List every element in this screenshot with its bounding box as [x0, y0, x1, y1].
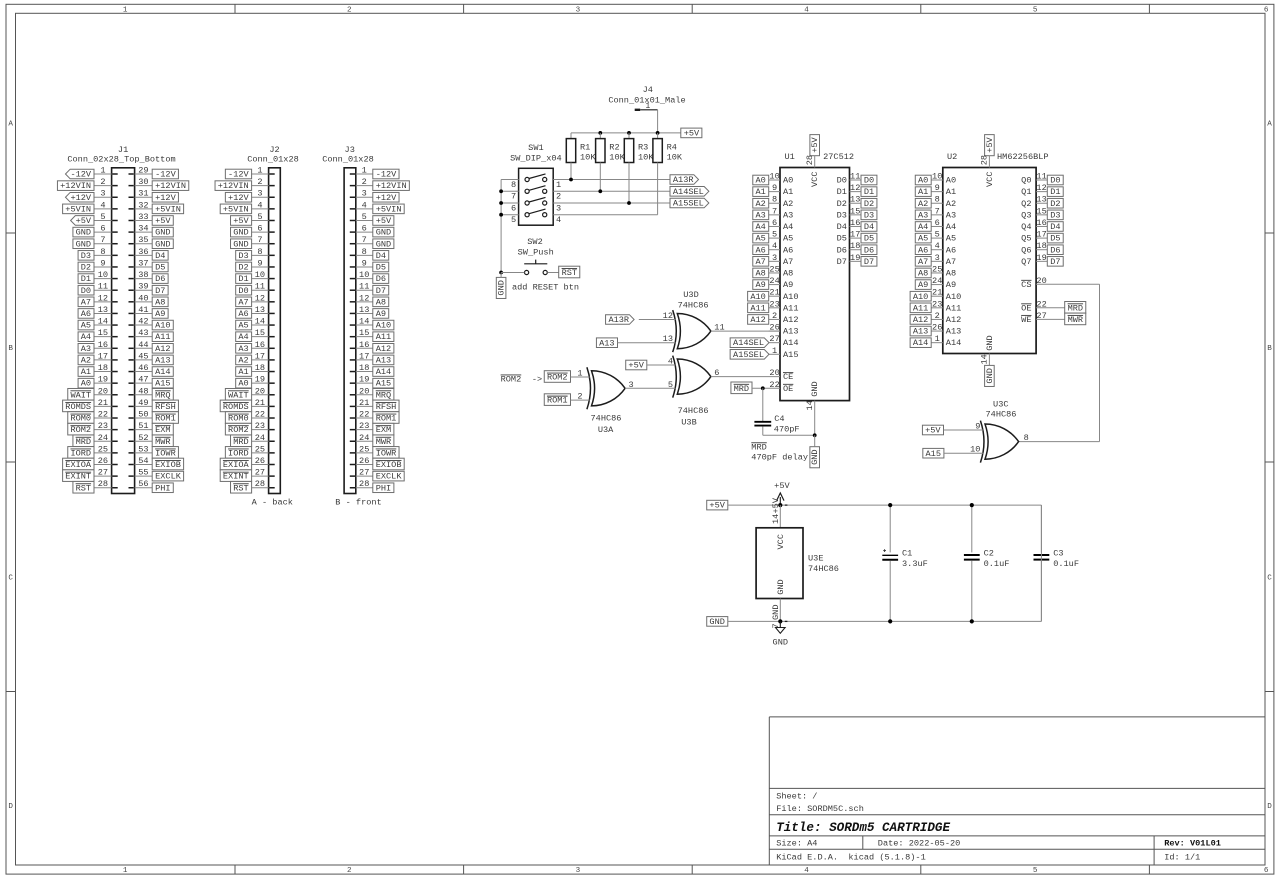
svg-text:A6: A6 [918, 245, 928, 255]
resistor R4 10K [653, 133, 683, 215]
label +5V (power rail) [707, 500, 728, 510]
svg-text:D3: D3 [1050, 210, 1060, 220]
svg-text:Q3: Q3 [1021, 210, 1031, 220]
svg-text:12: 12 [98, 293, 108, 303]
J2 pin 18 (A1) [236, 363, 275, 377]
J3 pin 16 (A12) [350, 340, 394, 354]
J1 pin 32 (+5VIN) [129, 200, 184, 214]
J1 pin 41 (A9) [129, 305, 169, 319]
junction C1 bottom [888, 619, 892, 623]
svg-text:MRQ: MRQ [376, 390, 391, 400]
svg-text:MRD: MRD [76, 437, 91, 447]
svg-text:A3: A3 [918, 210, 928, 220]
U2 pin 4 (A6) [915, 241, 956, 255]
XOR gate U3A 74HC86 [577, 367, 633, 435]
J2 pin 10 (D1) [236, 270, 275, 284]
svg-text:47: 47 [138, 375, 148, 385]
svg-text:+12VIN: +12VIN [376, 181, 407, 191]
J1 pin 51 (EXM) [129, 421, 174, 435]
svg-text:C3: C3 [1053, 548, 1063, 558]
svg-text:GND: GND [985, 335, 995, 350]
svg-text:U3E: U3E [808, 553, 823, 563]
svg-text:D2: D2 [864, 199, 874, 209]
label A15 at U3C [923, 448, 944, 458]
J1 pin 17 (A2) [78, 351, 118, 365]
svg-text:A12: A12 [376, 344, 391, 354]
svg-text:A13: A13 [376, 355, 391, 365]
svg-text:20: 20 [255, 386, 265, 396]
svg-text:+5V: +5V [709, 501, 725, 511]
svg-text:+5V: +5V [810, 136, 820, 152]
svg-text:A1: A1 [946, 187, 956, 197]
svg-text:EXCLK: EXCLK [376, 472, 403, 482]
label MRD at U1 OE [731, 382, 752, 394]
svg-text:A10: A10 [913, 292, 928, 302]
J2 pin 27 (EXINT) [220, 468, 275, 482]
J2 pin 13 (A6) [236, 305, 275, 319]
J2 pin 14 (A5) [236, 317, 275, 331]
svg-text:D4: D4 [837, 222, 847, 232]
svg-text:6: 6 [1264, 6, 1269, 14]
J2 pin 8 (D3) [236, 247, 275, 261]
svg-text:8: 8 [100, 247, 105, 257]
svg-text:A3: A3 [946, 210, 956, 220]
svg-text:13: 13 [98, 305, 108, 315]
svg-text:-12V: -12V [70, 170, 91, 180]
J2 pin 17 (A2) [236, 351, 275, 365]
svg-text:4: 4 [804, 6, 809, 14]
svg-text:ROM2: ROM2 [501, 375, 522, 385]
wire GND bottom rail [728, 620, 1042, 622]
svg-text:13: 13 [850, 195, 860, 205]
svg-text:GND: GND [76, 239, 91, 249]
svg-text:A12: A12 [946, 315, 961, 325]
label A13R (switch) [670, 175, 699, 185]
svg-text:D0: D0 [81, 286, 91, 296]
J2 pin 11 (D0) [236, 282, 275, 296]
label +5V at U3C [922, 425, 943, 435]
svg-text:22: 22 [255, 410, 265, 420]
U1 pin 10 (A0) [769, 172, 794, 186]
XOR gate U3B 74HC86 [668, 356, 720, 428]
svg-text:A8: A8 [755, 269, 765, 279]
U2 pin 27 (WE) to MWR [1021, 311, 1086, 325]
svg-text:A6: A6 [81, 309, 91, 319]
svg-text:A5: A5 [783, 234, 793, 244]
svg-text:4: 4 [556, 215, 561, 225]
svg-text:A4: A4 [81, 332, 91, 342]
svg-text:J4: J4 [643, 85, 653, 95]
svg-text:A: A [1267, 121, 1272, 129]
svg-text:2: 2 [772, 311, 777, 321]
J1 pin 26 (EXIOA) [63, 456, 118, 470]
svg-text:IOWR: IOWR [155, 448, 176, 458]
svg-text:J3: J3 [345, 145, 355, 155]
svg-text:D0: D0 [864, 176, 874, 186]
svg-text:D1: D1 [238, 274, 248, 284]
svg-text:6: 6 [772, 218, 777, 228]
svg-text:6: 6 [1264, 867, 1269, 875]
svg-text:GND: GND [376, 239, 391, 249]
power symbol GND [773, 621, 788, 647]
svg-text:55: 55 [138, 468, 148, 478]
svg-text:74HC86: 74HC86 [678, 406, 709, 416]
svg-text:Q6: Q6 [1021, 245, 1031, 255]
svg-text:A15: A15 [376, 379, 391, 389]
svg-text:A3: A3 [783, 210, 793, 220]
svg-text:IORD: IORD [70, 448, 91, 458]
svg-text:10K: 10K [580, 153, 596, 163]
svg-text:U1: U1 [785, 152, 795, 162]
svg-text:U3D: U3D [683, 290, 698, 300]
svg-text:24: 24 [359, 433, 369, 443]
svg-text:EXIOA: EXIOA [223, 460, 250, 470]
U1 pin 13 (D2) [837, 195, 877, 209]
label A7 at U1 [753, 257, 769, 267]
svg-text:A9: A9 [155, 309, 165, 319]
U1 pin 9 (A1) [769, 183, 794, 197]
label A1 at U1 [753, 187, 769, 197]
svg-text:D4: D4 [155, 251, 165, 261]
svg-text:EXINT: EXINT [65, 472, 91, 482]
svg-text:9: 9 [362, 258, 367, 268]
svg-text:A3: A3 [81, 344, 91, 354]
svg-text:470pF delay: 470pF delay [751, 453, 808, 463]
svg-text:A13: A13 [946, 327, 961, 337]
IC U1 27C512 body [780, 152, 854, 400]
J1 pin 37 (D5) [129, 258, 169, 272]
svg-text:10: 10 [255, 270, 265, 280]
connector J1 body [67, 145, 175, 494]
svg-text:Id: 1/1: Id: 1/1 [1164, 853, 1200, 863]
svg-text:KiCad E.D.A. kicad (5.1.8)-1: KiCad E.D.A. kicad (5.1.8)-1 [776, 853, 926, 863]
svg-text:+5V: +5V [155, 216, 171, 226]
J2 pin 2 (+12VIN) [215, 177, 275, 191]
svg-text:A6: A6 [238, 309, 248, 319]
svg-text:D: D [1267, 803, 1272, 811]
J1 pin 3 (+12V) [65, 189, 117, 203]
svg-text:U3C: U3C [993, 400, 1008, 410]
svg-text:41: 41 [138, 305, 148, 315]
svg-text:A9: A9 [783, 280, 793, 290]
label A13R at U3D [606, 315, 635, 325]
svg-text:18: 18 [1036, 241, 1046, 251]
svg-text:A3: A3 [238, 344, 248, 354]
svg-text:+5VIN: +5VIN [65, 204, 91, 214]
svg-text:EXIOB: EXIOB [376, 460, 402, 470]
U2 pin 26 (A13) [910, 323, 961, 337]
svg-text:+12VIN: +12VIN [218, 181, 249, 191]
svg-text:3: 3 [556, 203, 561, 213]
svg-text:14: 14 [98, 317, 108, 327]
U1 pin 16 (D4) [837, 218, 877, 232]
capacitor C3 0.1uF [1034, 505, 1079, 621]
svg-text:D0: D0 [837, 176, 847, 186]
svg-text:11: 11 [359, 282, 369, 292]
svg-text:14: 14 [255, 317, 265, 327]
U1 pin 20 (CE) [769, 368, 793, 382]
svg-text:A7: A7 [783, 257, 793, 267]
J1 pin 47 (A15) [129, 375, 174, 389]
svg-text:EXIOB: EXIOB [155, 460, 181, 470]
svg-text:28: 28 [98, 479, 108, 489]
svg-text:15: 15 [255, 328, 265, 338]
svg-text:D: D [8, 803, 13, 811]
svg-text:14: 14 [359, 317, 369, 327]
svg-text:A5: A5 [946, 234, 956, 244]
J1 pin 25 (IORD) [68, 444, 118, 458]
J3 pin 26 (EXIOB) [350, 456, 404, 470]
J3 pin 27 (EXCLK) [350, 468, 404, 482]
J1 pin 15 (A4) [78, 328, 118, 342]
svg-text:EXIOA: EXIOA [65, 460, 92, 470]
svg-text:A9: A9 [755, 280, 765, 290]
J3 pin 9 (D5) [350, 258, 389, 272]
svg-text:28: 28 [805, 155, 815, 165]
svg-text:4: 4 [804, 867, 809, 875]
junction C1 top [888, 503, 892, 507]
svg-text:Q7: Q7 [1021, 257, 1031, 267]
svg-text:+12V: +12V [376, 193, 397, 203]
svg-text:29: 29 [138, 166, 148, 176]
svg-text:+5V: +5V [925, 426, 941, 436]
svg-text:+5V: +5V [628, 361, 644, 371]
capacitor C2 0.1uF [964, 505, 1009, 621]
svg-text:0.1uF: 0.1uF [1053, 559, 1079, 569]
svg-text:D3: D3 [837, 210, 847, 220]
junction bus row2 [499, 189, 503, 193]
U2 pin 24 (A9) [915, 276, 956, 290]
svg-text:GND: GND [233, 228, 248, 238]
svg-text:A: A [8, 121, 13, 129]
svg-text:+12V: +12V [228, 193, 249, 203]
svg-text:MRD: MRD [734, 384, 749, 394]
svg-text:1: 1 [123, 867, 128, 875]
svg-text:21: 21 [769, 288, 779, 298]
junction C2 bottom [970, 619, 974, 623]
svg-text:MWR: MWR [1068, 315, 1083, 325]
J2 pin 5 (+5V) [231, 212, 275, 226]
wire SW1 row2 to A14SEL [600, 190, 670, 192]
svg-text:WE: WE [1021, 315, 1031, 325]
U2 pin 6 (A4) [915, 218, 956, 232]
note MRD 470pF delay [751, 442, 808, 462]
J1 pin 38 (D6) [129, 270, 169, 284]
svg-text:43: 43 [138, 328, 148, 338]
svg-text:D5: D5 [837, 234, 847, 244]
svg-text:A7: A7 [946, 257, 956, 267]
svg-text:+12V: +12V [70, 193, 91, 203]
J1 pin 11 (D0) [78, 282, 118, 296]
U1 pin 12 (D1) [837, 183, 877, 197]
svg-text:GND: GND [810, 449, 820, 464]
svg-text:40: 40 [138, 293, 148, 303]
svg-text:25: 25 [98, 444, 108, 454]
svg-text:31: 31 [138, 189, 148, 199]
wire MRD to U1 OE [752, 387, 780, 389]
resistor R1 10K [566, 139, 596, 180]
J1 pin 20 (WAIT) [68, 386, 118, 400]
svg-text:OE: OE [1021, 303, 1031, 313]
svg-text:A5: A5 [81, 321, 91, 331]
svg-text:2: 2 [257, 177, 262, 187]
J2 pin 16 (A3) [236, 340, 275, 354]
U1 pin 4 (A6) [769, 241, 794, 255]
svg-text:7: 7 [772, 206, 777, 216]
junction bus row3 [499, 201, 503, 205]
svg-text:6: 6 [511, 203, 516, 213]
wire right rail C3 [1040, 505, 1042, 621]
svg-text:A4: A4 [946, 222, 956, 232]
svg-text:10: 10 [359, 270, 369, 280]
J1 pin 49 (RFSH) [129, 398, 179, 412]
svg-text:A14: A14 [913, 338, 928, 348]
svg-text:D6: D6 [837, 245, 847, 255]
svg-text:C2: C2 [984, 548, 994, 558]
connector J2 body [247, 145, 299, 494]
svg-text:11: 11 [255, 282, 265, 292]
svg-text:U3A: U3A [598, 425, 614, 435]
svg-text:A10: A10 [946, 292, 961, 302]
svg-text:VCC: VCC [776, 534, 786, 549]
svg-text:45: 45 [138, 351, 148, 361]
svg-text:+5V: +5V [684, 128, 700, 138]
J1 pin 46 (A14) [129, 363, 174, 377]
svg-text:ROM0: ROM0 [228, 414, 249, 424]
svg-text:38: 38 [138, 270, 148, 280]
label A5 at U1 [753, 233, 769, 243]
U1 pin 26 (A13) [769, 323, 799, 337]
svg-text:23: 23 [932, 299, 942, 309]
J1 pin 44 (A12) [129, 340, 174, 354]
svg-text:+5V: +5V [76, 216, 92, 226]
svg-text:50: 50 [138, 410, 148, 420]
svg-text:SW2: SW2 [527, 237, 542, 247]
svg-text:13: 13 [255, 305, 265, 315]
svg-text:C4: C4 [774, 414, 784, 424]
J1 pin 55 (EXCLK) [129, 468, 184, 482]
U1 pin 14 GND [805, 381, 820, 435]
J1 pin 33 (+5V) [129, 212, 174, 226]
wire U3B out to U1 CE [711, 376, 780, 378]
U1 pin 24 (A9) [769, 276, 794, 290]
wire +5V to U3B [647, 364, 676, 366]
J2 pin 1 (-12V) [225, 166, 274, 180]
svg-text:49: 49 [138, 398, 148, 408]
svg-text:27: 27 [255, 468, 265, 478]
J3 pin 10 (D6) [350, 270, 389, 284]
svg-text:MWR: MWR [155, 437, 170, 447]
svg-text:14: 14 [979, 354, 989, 364]
svg-text:A - back: A - back [252, 497, 293, 507]
svg-text:+5V: +5V [774, 481, 790, 491]
svg-text:7: 7 [257, 235, 262, 245]
svg-text:add RESET btn: add RESET btn [512, 282, 579, 292]
svg-text:EXM: EXM [376, 425, 391, 435]
svg-text:6: 6 [362, 224, 367, 234]
J3 pin 25 (IOWR) [350, 444, 399, 458]
svg-text:J1: J1 [118, 145, 128, 155]
J3 pin 22 (ROM1) [350, 410, 399, 424]
svg-text:MRD: MRD [751, 442, 766, 452]
svg-text:SW_DIP_x04: SW_DIP_x04 [510, 154, 562, 164]
svg-text:+5VIN: +5VIN [155, 204, 181, 214]
svg-text:D1: D1 [864, 187, 874, 197]
svg-text:15: 15 [1036, 206, 1046, 216]
svg-text:28: 28 [255, 479, 265, 489]
J1 pin 34 (GND) [129, 224, 174, 238]
svg-text:1: 1 [123, 6, 128, 14]
svg-text:D5: D5 [376, 263, 386, 273]
svg-text:MRD: MRD [1068, 303, 1083, 313]
wire ROM2 to U3A [571, 376, 590, 378]
svg-text:GND: GND [155, 239, 170, 249]
U2 pin 18 (Q6) [1021, 241, 1063, 255]
svg-text:8: 8 [935, 195, 940, 205]
svg-text:1: 1 [935, 334, 940, 344]
J2 pin 4 (+5VIN) [220, 200, 275, 214]
J2 pin 7 (GND) [231, 235, 275, 249]
svg-text:24: 24 [255, 433, 265, 443]
note add RESET btn [512, 282, 579, 292]
svg-text:A11: A11 [376, 332, 391, 342]
J3 pin 3 (+12V) [350, 189, 399, 203]
svg-text:12: 12 [359, 293, 369, 303]
U1 pin 6 (A4) [769, 218, 794, 232]
junction R3/row3 [627, 201, 631, 205]
label +5V above U1 [810, 135, 820, 156]
svg-text:23: 23 [255, 421, 265, 431]
power symbol +5V [774, 481, 790, 505]
svg-text:MRQ: MRQ [155, 390, 170, 400]
svg-text:+12VIN: +12VIN [60, 181, 91, 191]
svg-text:+12VIN: +12VIN [155, 181, 186, 191]
svg-text:7: 7 [935, 206, 940, 216]
svg-text:A11: A11 [946, 303, 961, 313]
svg-text:A2: A2 [755, 199, 765, 209]
U1 pin 11 (D0) [837, 172, 877, 186]
svg-text:A0: A0 [238, 379, 248, 389]
svg-text:8: 8 [1024, 433, 1029, 443]
svg-text:32: 32 [138, 200, 148, 210]
svg-text:9: 9 [935, 183, 940, 193]
J1 pin 52 (MWR) [129, 433, 174, 447]
J1 pin 29 (-12V) [129, 166, 179, 180]
label A9 at U1 [753, 280, 769, 290]
svg-text:30: 30 [138, 177, 148, 187]
J2 pin 20 (WAIT) [225, 386, 274, 400]
svg-text:1: 1 [556, 180, 561, 190]
svg-text:A0: A0 [783, 176, 793, 186]
svg-text:A0: A0 [81, 379, 91, 389]
label GND below U1 [810, 447, 820, 468]
label A3 at U1 [753, 210, 769, 220]
svg-text:A2: A2 [81, 355, 91, 365]
junction +5V / U3E VCC [778, 503, 787, 507]
svg-text:5: 5 [1033, 6, 1038, 14]
svg-text:A14: A14 [376, 367, 391, 377]
svg-text:R1: R1 [580, 142, 590, 152]
svg-text:Rev: V01L01: Rev: V01L01 [1164, 839, 1221, 849]
label ROM1 at U3A [544, 394, 570, 406]
svg-text:22: 22 [98, 410, 108, 420]
svg-text:+5V: +5V [376, 216, 392, 226]
svg-text:VCC: VCC [985, 172, 995, 187]
U1 pin 22 (OE) [769, 380, 793, 394]
svg-text:11: 11 [98, 282, 108, 292]
J2 pin 25 (IORD) [225, 444, 274, 458]
junction bus SW2 [499, 271, 503, 275]
